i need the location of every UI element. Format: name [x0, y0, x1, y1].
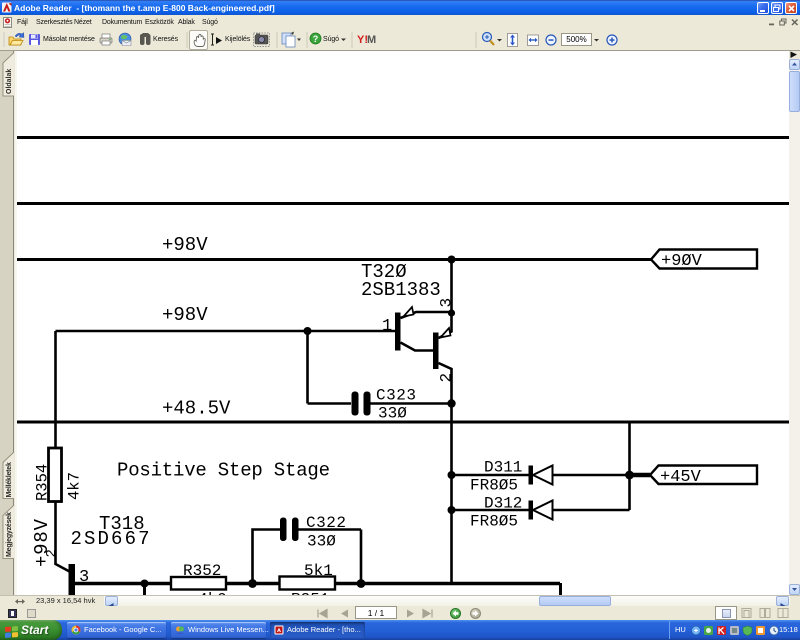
svg-text:+98V: +98V [31, 518, 53, 567]
svg-text:5k1: 5k1 [304, 562, 333, 580]
svg-text:Megjegyzések: Megjegyzések [6, 512, 13, 557]
svg-text:4k7: 4k7 [66, 472, 84, 500]
svg-text:2: 2 [44, 549, 60, 557]
svg-text:+98V: +98V [162, 304, 208, 326]
svg-text:M: M [367, 34, 376, 46]
svg-text:1: 1 [382, 317, 392, 336]
svg-text:33Ø: 33Ø [378, 405, 407, 423]
svg-text:Oldalak: Oldalak [6, 69, 13, 94]
svg-text:33Ø: 33Ø [307, 533, 336, 551]
svg-text:?: ? [313, 34, 319, 44]
svg-text:FR8Ø5: FR8Ø5 [470, 477, 518, 495]
svg-text:FR8Ø5: FR8Ø5 [470, 513, 518, 531]
svg-text:Positive Step Stage: Positive Step Stage [117, 460, 330, 482]
svg-text:+48.5V: +48.5V [162, 398, 231, 420]
svg-text:+45V: +45V [660, 468, 702, 487]
svg-text:2SB1383: 2SB1383 [361, 279, 441, 301]
svg-text:D312: D312 [484, 495, 522, 513]
svg-text:3: 3 [79, 568, 89, 587]
svg-text:C322: C322 [306, 514, 346, 532]
svg-text:Mellékletek: Mellékletek [6, 462, 13, 497]
svg-text:D311: D311 [484, 459, 522, 477]
svg-text:C323: C323 [376, 387, 416, 405]
svg-text:+9ØV: +9ØV [661, 252, 703, 271]
svg-text:R354: R354 [34, 464, 52, 501]
svg-text:+98V: +98V [162, 234, 208, 256]
svg-text:3: 3 [438, 298, 456, 308]
svg-text:R352: R352 [183, 562, 221, 580]
svg-text:2: 2 [438, 373, 456, 383]
